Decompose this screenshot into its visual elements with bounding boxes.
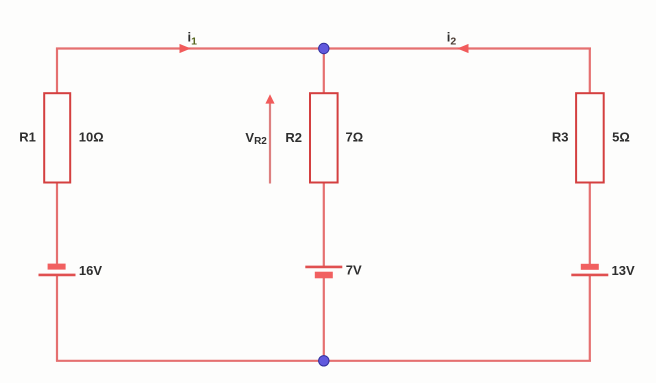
svg-text:10Ω: 10Ω [79,129,104,144]
svg-text:13V: 13V [612,263,635,278]
svg-text:16V: 16V [79,263,102,278]
svg-text:R1: R1 [19,129,36,144]
svg-text:7Ω: 7Ω [346,130,364,145]
svg-text:5Ω: 5Ω [612,130,630,145]
svg-text:R3: R3 [552,130,569,145]
svg-text:7V: 7V [346,263,362,278]
svg-text:R2: R2 [285,130,302,145]
